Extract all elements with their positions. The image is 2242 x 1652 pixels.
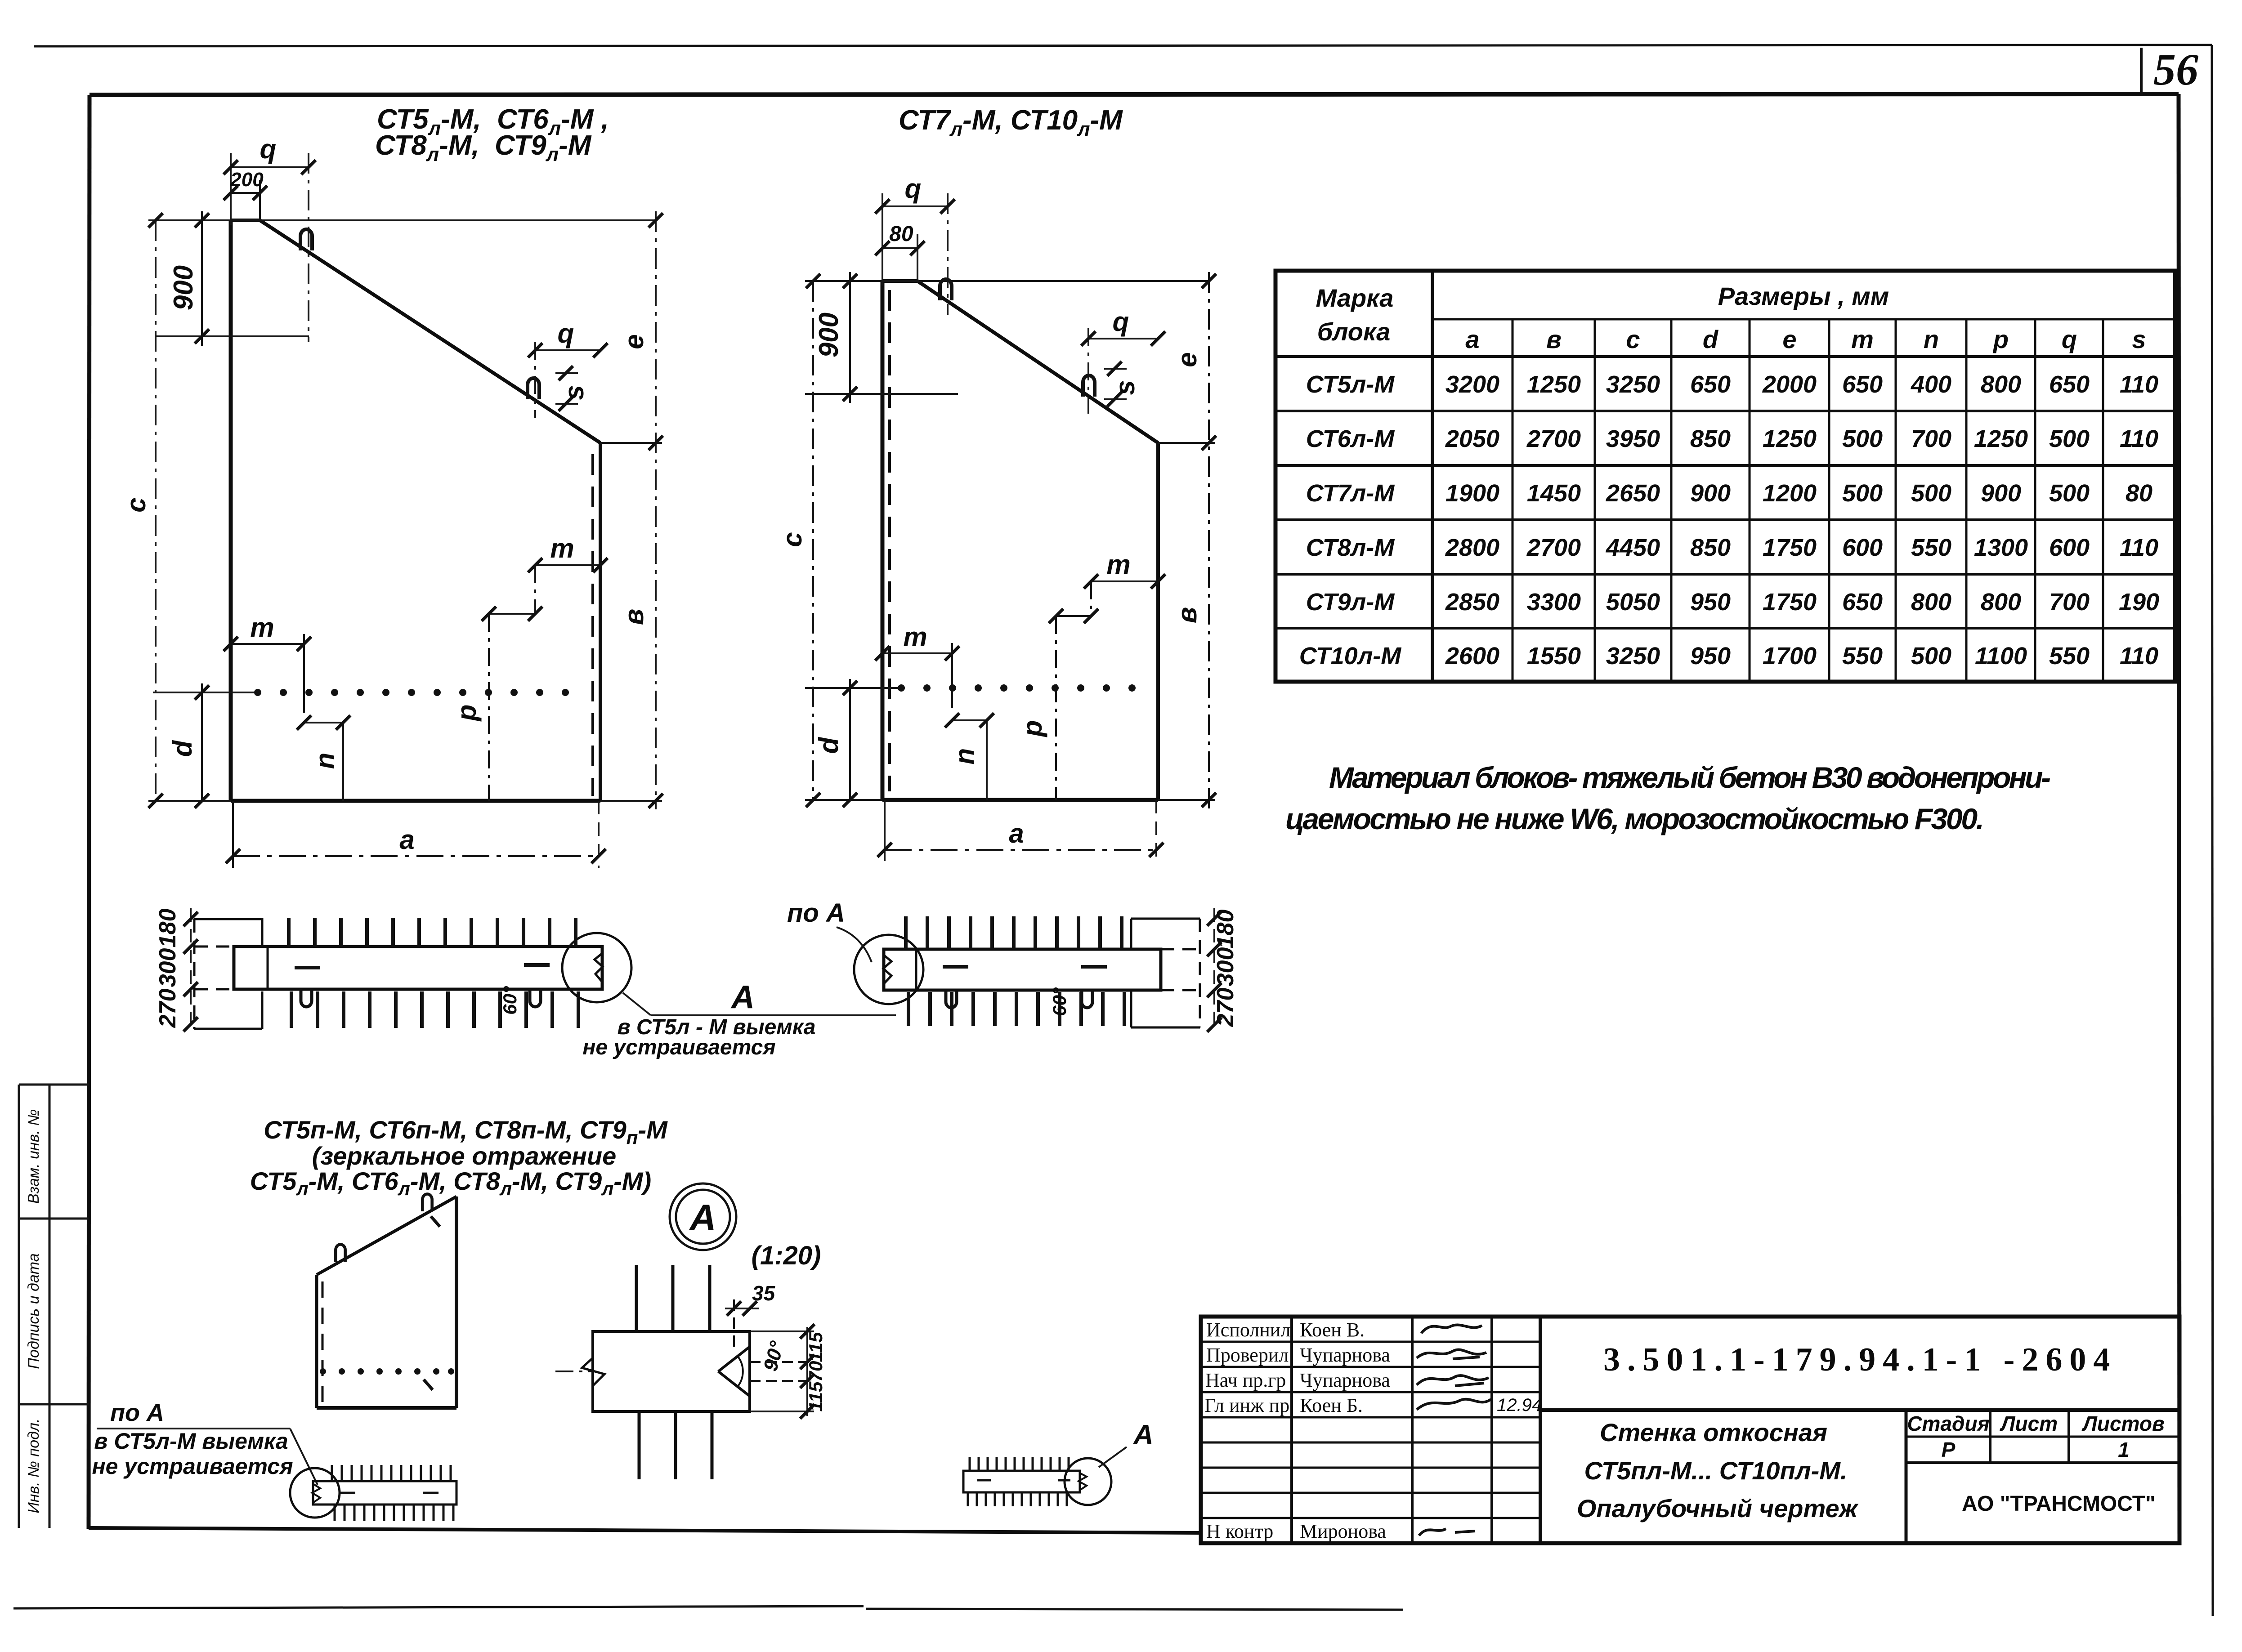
svg-text:q: q [1113,307,1129,337]
svg-text:(зеркальное отражение: (зеркальное отражение [312,1142,616,1170]
svg-text:1900: 1900 [1445,480,1499,507]
svg-text:по А: по А [787,898,845,928]
svg-text:Гл инж пр: Гл инж пр [1204,1394,1289,1416]
svg-text:3200: 3200 [1445,371,1499,398]
svg-text:70: 70 [805,1361,826,1382]
svg-text:180: 180 [155,909,181,948]
svg-text:950: 950 [1690,589,1731,616]
svg-text:1: 1 [2118,1438,2130,1461]
svg-text:2050: 2050 [1445,425,1499,452]
svg-text:Стенка откосная: Стенка откосная [1600,1418,1827,1447]
svg-text:3950: 3950 [1606,425,1660,452]
svg-text:блока: блока [1317,317,1390,346]
svg-text:по А: по А [110,1399,164,1426]
svg-text:200: 200 [230,169,264,191]
svg-text:3250: 3250 [1606,643,1660,670]
svg-text:3300: 3300 [1527,589,1581,616]
svg-text:900: 900 [168,265,198,310]
svg-text:Марка: Марка [1316,284,1394,312]
svg-text:800: 800 [1911,589,1951,616]
svg-text:d: d [167,740,197,757]
svg-text:115: 115 [805,1381,826,1412]
svg-text:2650: 2650 [1606,480,1660,507]
svg-text:1200: 1200 [1763,480,1817,507]
svg-text:110: 110 [2120,425,2158,452]
svg-text:12.94: 12.94 [1497,1395,1542,1415]
svg-text:Лист: Лист [2000,1412,2058,1435]
svg-text:c: c [121,497,151,512]
svg-text:2800: 2800 [1445,534,1499,561]
svg-text:1450: 1450 [1527,480,1581,507]
svg-text:А: А [689,1197,716,1238]
svg-text:2700: 2700 [1526,534,1581,561]
svg-text:110: 110 [2120,371,2158,398]
svg-text:не устраивается: не устраивается [582,1036,775,1059]
svg-text:Листов: Листов [2081,1412,2164,1435]
svg-text:270: 270 [1213,988,1239,1027]
svg-text:e: e [1782,325,1796,353]
svg-text:АО "ТРАНСМОСТ": АО "ТРАНСМОСТ" [1962,1492,2156,1516]
svg-text:700: 700 [1911,425,1951,452]
svg-text:600: 600 [1842,534,1883,561]
svg-text:не устраивается: не устраивается [92,1454,293,1479]
svg-text:Стадия: Стадия [1907,1412,1989,1435]
svg-text:СТ7л-М: СТ7л-М [1306,480,1395,507]
svg-text:Коен В.: Коен В. [1300,1319,1365,1341]
svg-text:Коен Б.: Коен Б. [1300,1394,1363,1416]
svg-text:270: 270 [155,989,181,1028]
svg-text:1750: 1750 [1763,589,1817,616]
svg-text:850: 850 [1690,425,1731,452]
svg-text:n: n [310,753,340,769]
svg-text:800: 800 [1981,589,2021,616]
svg-text:p: p [1992,325,2009,353]
svg-text:s: s [559,385,589,400]
svg-text:3.501.1-179.94.1-1 -2604: 3.501.1-179.94.1-1 -2604 [1603,1341,2117,1378]
svg-text:d: d [1703,325,1719,353]
svg-text:500: 500 [1911,643,1951,670]
svg-text:d: d [814,737,844,754]
svg-text:2000: 2000 [1762,371,1817,398]
svg-text:a: a [399,825,414,855]
svg-text:q: q [2062,325,2077,353]
svg-text:4450: 4450 [1606,534,1660,561]
svg-text:Нач пр.гр: Нач пр.гр [1205,1369,1286,1391]
svg-text:950: 950 [1690,643,1731,670]
svg-text:1250: 1250 [1527,371,1581,398]
svg-text:q: q [905,174,922,204]
svg-text:m: m [903,622,927,652]
svg-text:500: 500 [1911,480,1951,507]
svg-text:m: m [1851,325,1874,353]
svg-text:800: 800 [1981,371,2021,398]
svg-text:1100: 1100 [1975,643,2027,670]
svg-text:2600: 2600 [1445,643,1499,670]
svg-text:115: 115 [805,1332,826,1362]
svg-text:c: c [1626,325,1640,353]
svg-text:p: p [452,705,482,722]
svg-text:1550: 1550 [1527,643,1581,670]
svg-text:35: 35 [752,1281,776,1305]
svg-text:m: m [1106,549,1130,580]
svg-text:400: 400 [1911,371,1951,398]
svg-text:1750: 1750 [1763,534,1817,561]
svg-text:550: 550 [2049,643,2090,670]
svg-text:500: 500 [1842,480,1883,507]
svg-text:СТ5л-М: СТ5л-М [1306,371,1395,398]
svg-text:300: 300 [1213,947,1239,987]
svg-text:s: s [1110,380,1140,395]
svg-text:(1:20): (1:20) [752,1241,821,1270]
svg-text:500: 500 [2049,480,2090,507]
svg-text:А: А [730,979,755,1015]
svg-text:СТ6л-М: СТ6л-М [1306,425,1395,452]
svg-text:550: 550 [1842,643,1883,670]
svg-text:600: 600 [2049,534,2090,561]
svg-text:Инв. № подл.: Инв. № подл. [25,1419,42,1514]
svg-text:s: s [2132,325,2146,353]
svg-text:m: m [250,612,274,643]
svg-text:СТ5пл-М... СТ10пл-М.: СТ5пл-М... СТ10пл-М. [1584,1456,1848,1485]
svg-text:650: 650 [2049,371,2090,398]
svg-text:e: e [619,334,649,349]
svg-text:1250: 1250 [1763,425,1817,452]
svg-text:m: m [550,533,574,563]
svg-text:2850: 2850 [1445,589,1499,616]
svg-text:c: c [777,532,807,547]
svg-text:500: 500 [1842,425,1883,452]
svg-text:СТ10л-М: СТ10л-М [1299,643,1402,670]
svg-text:Р: Р [1942,1438,1956,1461]
svg-text:a: a [1009,818,1024,848]
svg-text:110: 110 [2120,534,2158,561]
svg-text:550: 550 [1911,534,1951,561]
svg-text:в: в [619,609,649,625]
svg-text:q: q [558,318,574,348]
svg-text:900: 900 [814,313,844,357]
svg-text:650: 650 [1690,371,1731,398]
svg-text:q: q [260,134,277,164]
svg-text:1250: 1250 [1974,425,2028,452]
svg-text:500: 500 [2049,425,2090,452]
svg-text:n: n [1924,325,1939,353]
svg-text:в: в [1172,607,1202,623]
svg-text:Подпись и дата: Подпись и дата [25,1253,42,1369]
svg-text:Опалубочный чертеж: Опалубочный чертеж [1577,1494,1859,1523]
svg-text:e: e [1172,352,1202,367]
svg-text:5050: 5050 [1606,589,1660,616]
svg-text:900: 900 [1690,480,1731,507]
svg-text:Размеры , мм: Размеры , мм [1718,282,1889,310]
svg-text:850: 850 [1690,534,1731,561]
svg-text:110: 110 [2120,643,2158,670]
svg-text:2700: 2700 [1526,425,1581,452]
svg-text:Н контр: Н контр [1206,1520,1273,1542]
svg-text:180: 180 [1213,910,1239,949]
svg-text:Проверил: Проверил [1206,1344,1289,1366]
svg-text:СТ9л-М: СТ9л-М [1306,589,1395,616]
svg-text:700: 700 [2049,589,2090,616]
svg-text:1700: 1700 [1763,643,1817,670]
svg-text:цаемостью не ниже W6, моро: цаемостью не ниже W6, морозостойкостью F… [1285,802,1984,835]
svg-text:Взам. инв. №: Взам. инв. № [25,1109,42,1204]
svg-text:900: 900 [1981,480,2021,507]
svg-text:в: в [1546,325,1562,353]
svg-text:Чупарнова: Чупарнова [1300,1344,1390,1366]
svg-text:p: p [1017,720,1047,738]
svg-text:60°: 60° [499,986,520,1015]
svg-text:190: 190 [2119,589,2159,616]
svg-text:А: А [1132,1420,1154,1451]
svg-text:СТ8л-М: СТ8л-М [1306,534,1395,561]
svg-text:в СТ5л-М выемка: в СТ5л-М выемка [94,1429,288,1454]
svg-text:Миронова: Миронова [1300,1520,1386,1542]
svg-text:n: n [949,748,980,765]
svg-text:650: 650 [1842,589,1883,616]
svg-text:3250: 3250 [1606,371,1660,398]
svg-text:80: 80 [2126,480,2152,507]
svg-text:Чупарнова: Чупарнова [1300,1369,1390,1391]
svg-text:Материал блоков- тяжелый бе: Материал блоков- тяжелый бетон В30 водон… [1329,761,2051,794]
svg-text:80: 80 [889,222,913,246]
svg-text:650: 650 [1842,371,1883,398]
svg-text:СТ5л-М, СТ6л-М, СТ8л-М, СТ9л: СТ5л-М, СТ6л-М, СТ8л-М, СТ9л-М) [250,1167,651,1199]
svg-text:56: 56 [2153,45,2198,94]
svg-text:Исполнил: Исполнил [1206,1319,1290,1341]
svg-text:300: 300 [155,948,181,987]
svg-text:a: a [1465,325,1479,353]
svg-text:60°: 60° [1049,987,1070,1016]
svg-text:1300: 1300 [1974,534,2028,561]
